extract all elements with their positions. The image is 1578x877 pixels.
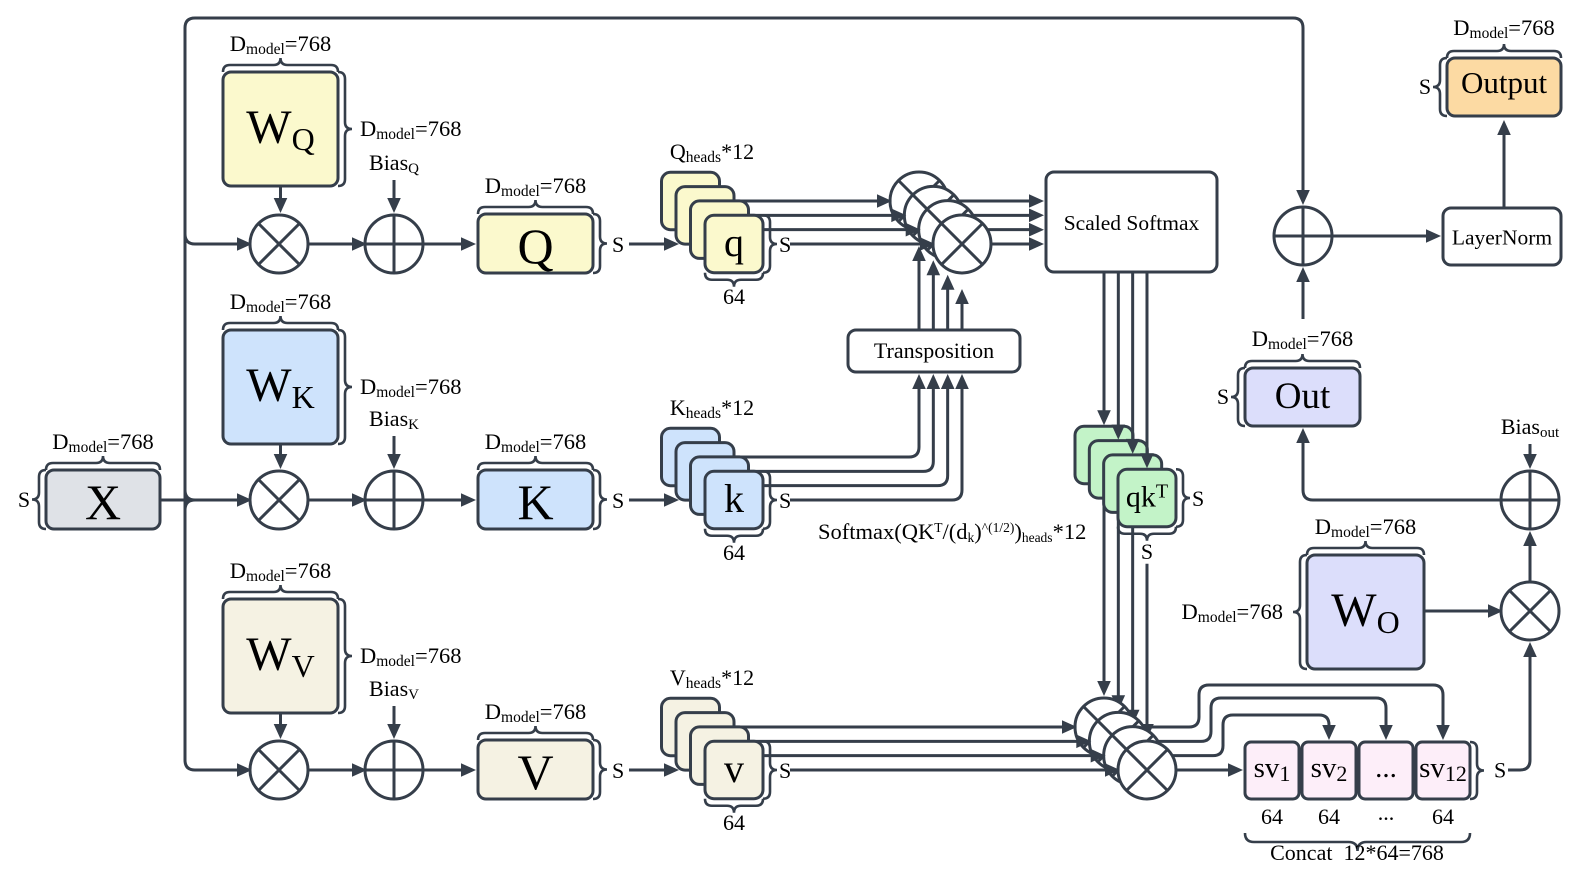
svg-text:...: ... xyxy=(1375,752,1397,784)
svg-text:Dmodel​=768: Dmodel​=768 xyxy=(230,31,331,58)
svg-text:S: S xyxy=(612,488,624,513)
svg-text:K: K xyxy=(517,474,553,530)
brace 64 under v stack xyxy=(705,799,763,813)
svg-text:Biasout​: Biasout​ xyxy=(1501,414,1560,441)
svg-text:Kheads​*12: Kheads​*12 xyxy=(670,395,754,422)
svg-text:Q: Q xyxy=(517,218,553,274)
wire bias add to Out box xyxy=(1303,437,1501,500)
multiply circle Q-row xyxy=(250,215,308,273)
add circle output bias xyxy=(1501,471,1559,529)
box Output xyxy=(1447,58,1561,116)
box Out xyxy=(1245,368,1360,426)
arrow multiply to add V-row xyxy=(308,769,358,772)
box LayerNorm xyxy=(1443,208,1561,265)
svg-text:Out: Out xyxy=(1275,376,1331,417)
arrow Bias_V down to add xyxy=(393,706,396,730)
svg-text:Concat 12*64=768: Concat 12*64=768 xyxy=(1270,840,1444,865)
svg-text:BiasQ​: BiasQ​ xyxy=(369,150,419,177)
svg-text:BiasK​: BiasK​ xyxy=(369,406,419,433)
box Transposition xyxy=(848,330,1020,372)
box K xyxy=(478,470,593,529)
weight matrix W_Q xyxy=(223,72,338,186)
box V xyxy=(478,740,593,799)
head card stack k (x12) xyxy=(662,428,720,486)
arrow W_K down to multiply xyxy=(279,444,282,460)
svg-text:S: S xyxy=(779,488,791,513)
arrow Bias_K down to add xyxy=(393,436,396,460)
add circle Q-row xyxy=(365,215,423,273)
brace S right of V box xyxy=(593,740,607,799)
arrows Scaled Softmax down to qk^T stack xyxy=(1103,272,1106,416)
multiply circle output xyxy=(1501,582,1559,640)
svg-text:S: S xyxy=(612,232,624,257)
multiply circle K-row xyxy=(250,471,308,529)
svg-text:64: 64 xyxy=(1261,804,1283,829)
svg-text:64: 64 xyxy=(723,810,745,835)
arrow front v head to bottom multiply stack xyxy=(790,769,1111,772)
svg-text:Scaled Softmax: Scaled Softmax xyxy=(1064,211,1200,235)
svg-text:S: S xyxy=(1419,74,1431,99)
wires q back heads outward xyxy=(712,200,884,203)
arrow output multiply up to bias add xyxy=(1529,540,1532,582)
svg-text:S: S xyxy=(1494,758,1506,783)
arrow add to K box xyxy=(423,499,467,502)
svg-text:S: S xyxy=(779,232,791,257)
arrow Bias_Q down to add xyxy=(393,180,396,204)
svg-text:64: 64 xyxy=(1432,804,1454,829)
svg-text:Dmodel​=768: Dmodel​=768 xyxy=(485,173,586,200)
svg-text:S: S xyxy=(1217,384,1229,409)
arrow Bias_out down to add xyxy=(1529,444,1532,460)
brace S left of X xyxy=(32,470,46,529)
brace S right of q stack xyxy=(763,215,777,272)
wires q-k multiply stack outputs to Scaled Softmax xyxy=(919,200,1035,203)
wire trunk branch to Q-row multiply xyxy=(185,234,243,244)
svg-text:S: S xyxy=(1141,539,1153,564)
svg-text:Dmodel​=768: Dmodel​=768 xyxy=(230,558,331,585)
arrowheads k lines into Transposition xyxy=(912,374,926,389)
svg-text:Softmax(QKT​/(dk​)^(1/2)​)head: Softmax(QKT​/(dk​)^(1/2)​)heads​*12 xyxy=(818,519,1086,545)
brace Concat under sv boxes xyxy=(1245,833,1470,851)
wires qk^T down to bottom multiply stack xyxy=(1103,478,1106,687)
arrow W_O to output multiply xyxy=(1424,610,1494,613)
box X xyxy=(46,470,160,529)
arrow add to Q box xyxy=(423,243,467,246)
add circle V-row xyxy=(365,741,423,799)
brace S right of K box xyxy=(593,470,607,529)
wires v back heads outward xyxy=(712,726,1069,729)
svg-text:S: S xyxy=(612,758,624,783)
svg-text:Dmodel​=768: Dmodel​=768 xyxy=(1453,15,1554,42)
brace S under qk stack xyxy=(1118,527,1176,541)
svg-text:Dmodel​=768: Dmodel​=768 xyxy=(230,289,331,316)
brace S right of qk stack xyxy=(1176,469,1190,527)
arrow W_Q down to multiply xyxy=(279,186,282,204)
arrows Transposition up into multiply stack xyxy=(918,255,921,330)
brace 64 under q stack xyxy=(705,273,763,287)
multiply circle V-row xyxy=(250,741,308,799)
head card stack q (x12) xyxy=(662,172,720,230)
wire X output to K-row multiply xyxy=(160,499,243,502)
head card stack v (x12) xyxy=(662,698,720,756)
brace S right of v stack xyxy=(763,741,777,799)
svg-text:S: S xyxy=(18,487,30,512)
svg-text:Dmodel​=768: Dmodel​=768 xyxy=(1252,326,1353,353)
svg-text:Vheads​*12: Vheads​*12 xyxy=(670,665,754,692)
arrow front q head to multiply stack xyxy=(790,243,926,246)
boxes sv_1 sv_2 ... sv_12 xyxy=(1245,742,1299,799)
wire trunk branch to V-row multiply xyxy=(185,760,243,770)
arrow LayerNorm up to Output xyxy=(1503,129,1506,208)
svg-text:64: 64 xyxy=(1318,804,1340,829)
arrow Out up to residual add xyxy=(1302,276,1305,319)
svg-text:Dmodel​=768: Dmodel​=768 xyxy=(1315,514,1416,541)
svg-text:q: q xyxy=(724,220,744,265)
svg-text:...: ... xyxy=(1378,800,1395,825)
brace 64 under k stack xyxy=(705,529,763,543)
svg-text:64: 64 xyxy=(723,284,745,309)
wires k back heads outward xyxy=(712,381,920,457)
svg-text:LayerNorm: LayerNorm xyxy=(1452,226,1553,250)
wire sv S to output multiply xyxy=(1508,651,1530,770)
brace S left of Output xyxy=(1433,58,1447,116)
svg-text:Transposition: Transposition xyxy=(874,338,994,363)
wire residual trunk from X up to top and across to residual add xyxy=(185,18,1303,760)
svg-text:Dmodel​=768: Dmodel​=768 xyxy=(360,643,461,670)
arrow multiply to add Q-row xyxy=(308,243,358,246)
svg-text:Dmodel​=768: Dmodel​=768 xyxy=(485,699,586,726)
svg-text:V: V xyxy=(517,744,553,800)
svg-text:BiasV​: BiasV​ xyxy=(369,676,419,703)
brace S right of sv boxes xyxy=(1470,742,1484,799)
svg-text:Dmodel​=768: Dmodel​=768 xyxy=(360,116,461,143)
svg-text:Output: Output xyxy=(1461,65,1548,100)
arrow K box to k head stack xyxy=(629,499,670,502)
card stack qk^T (x12) xyxy=(1075,426,1133,484)
multiply circle stack s*v (4 circles) xyxy=(1075,698,1133,756)
svg-text:S: S xyxy=(1192,486,1204,511)
weight matrix W_K xyxy=(223,330,338,444)
multiply circle stack q*k (4 circles) xyxy=(890,172,948,230)
arrow multiply to add K-row xyxy=(308,499,358,502)
svg-text:Dmodel​=768: Dmodel​=768 xyxy=(52,429,153,456)
wire front k head to Transposition xyxy=(790,381,962,500)
arrow Q box to q head stack xyxy=(629,243,670,246)
brace S right of k stack xyxy=(763,471,777,529)
svg-text:X: X xyxy=(85,474,121,530)
arrow residual add to LayerNorm xyxy=(1332,235,1432,238)
arrow W_V down to multiply xyxy=(279,713,282,730)
svg-text:Dmodel​=768: Dmodel​=768 xyxy=(360,374,461,401)
brace S right of Q box xyxy=(593,214,607,273)
arrowheads into multiply stack xyxy=(877,194,892,208)
wires bottom multiply stack outputs to sv boxes xyxy=(1147,769,1234,772)
svg-text:64: 64 xyxy=(723,540,745,565)
arrow V box to v head stack xyxy=(629,769,670,772)
weight matrix W_O xyxy=(1307,555,1424,669)
weight matrix W_V xyxy=(223,599,338,713)
svg-text:Qheads​*12: Qheads​*12 xyxy=(670,139,754,166)
svg-text:k: k xyxy=(724,476,744,521)
add circle K-row xyxy=(365,471,423,529)
arrow add to V box xyxy=(423,769,467,772)
arrowheads v heads into bottom multiply stack xyxy=(1062,720,1077,734)
box Scaled Softmax xyxy=(1046,172,1217,272)
svg-text:v: v xyxy=(724,746,744,791)
add circle residual xyxy=(1274,207,1332,265)
box Q xyxy=(478,214,593,273)
svg-text:Dmodel​=768: Dmodel​=768 xyxy=(1182,599,1283,626)
brace S left of Out xyxy=(1231,368,1245,426)
svg-text:S: S xyxy=(779,758,791,783)
svg-text:Dmodel​=768: Dmodel​=768 xyxy=(485,429,586,456)
